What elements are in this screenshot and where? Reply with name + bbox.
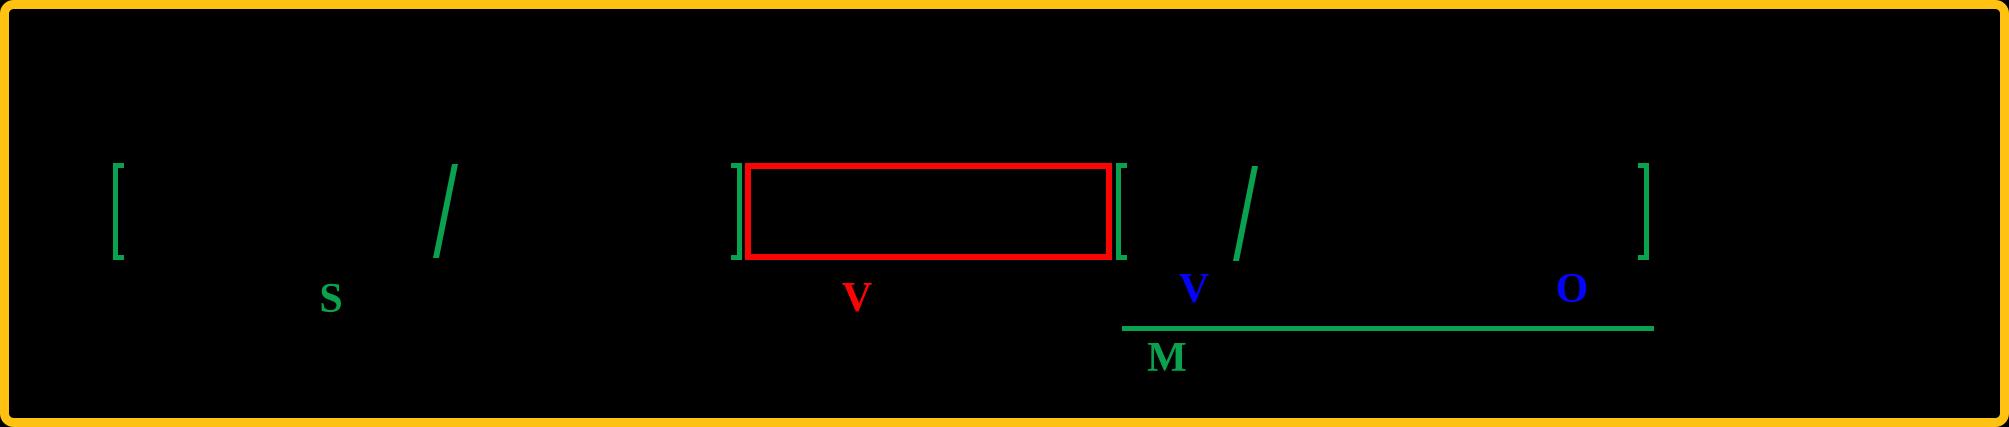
left green bracket [ (clause open): [113, 163, 124, 260]
red rectangle (verb box): [748, 166, 1109, 257]
green slash 2 (divider): [1233, 166, 1258, 261]
green bracket ] (second clause close): [1638, 163, 1649, 260]
green underline (modifier scope): [1122, 326, 1654, 331]
svg-text:M: M: [1147, 335, 1187, 381]
svg-text:O: O: [1556, 266, 1589, 312]
svg-text:V: V: [1179, 266, 1209, 312]
svg-text:V: V: [842, 275, 872, 321]
green bracket ] (clause close): [731, 163, 742, 260]
svg-text:S: S: [319, 276, 342, 322]
green slash 1 (divider after subject): [433, 164, 458, 258]
green bracket [ (second clause open): [1116, 163, 1127, 260]
